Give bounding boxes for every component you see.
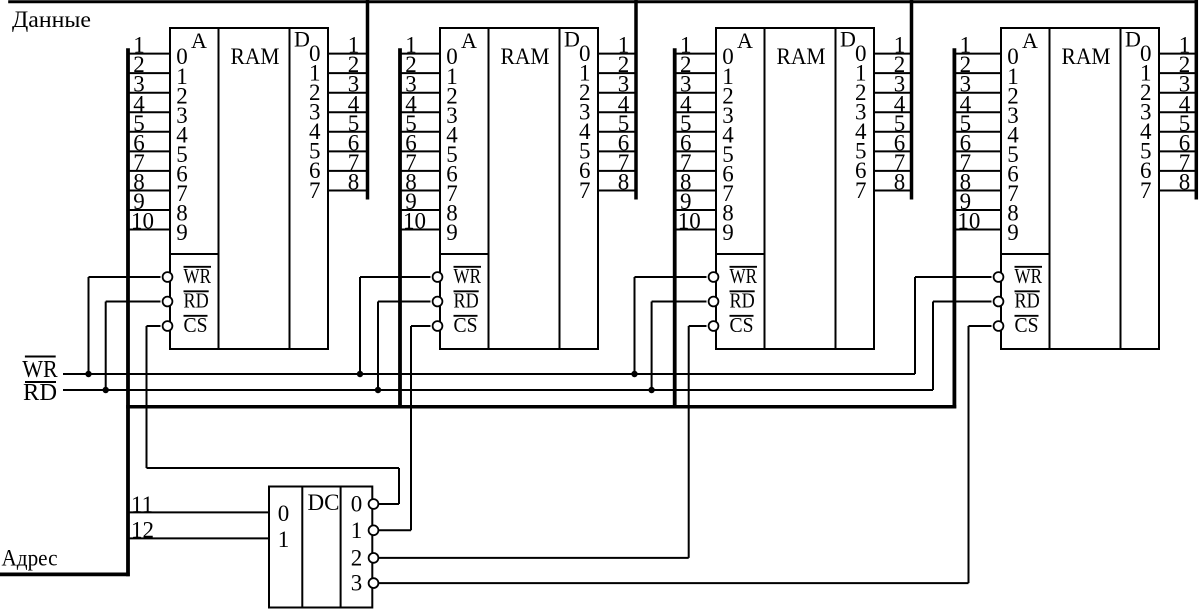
svg-text:10: 10 bbox=[957, 209, 980, 234]
data line numbers 1-8 of RAM D4 bbox=[1179, 33, 1191, 195]
data riser bus from RAM D1 to data bus bbox=[366, 0, 370, 200]
decoder DC body bbox=[269, 487, 372, 608]
decoder output 3 inversion circle bbox=[369, 578, 379, 588]
svg-text:Данные: Данные bbox=[12, 7, 91, 33]
svg-text:7: 7 bbox=[855, 178, 867, 203]
svg-text:1: 1 bbox=[351, 518, 363, 543]
svg-text:Адрес: Адрес bbox=[2, 546, 58, 572]
svg-text:12: 12 bbox=[131, 518, 154, 543]
svg-text:2: 2 bbox=[351, 546, 363, 571]
pin CS of RAM D4 (inversion circle + label) bbox=[994, 313, 1039, 337]
svg-text:3: 3 bbox=[351, 571, 363, 596]
svg-text:A: A bbox=[191, 28, 207, 53]
svg-text:11: 11 bbox=[131, 492, 153, 517]
decoder output 0 inversion circle bbox=[369, 499, 379, 509]
svg-text:7: 7 bbox=[579, 178, 591, 203]
pin WR of RAM D1 (inversion circle + label) bbox=[163, 264, 211, 288]
svg-text:D: D bbox=[840, 27, 856, 52]
wire decoder output 0 to CS of RAM D1 bbox=[147, 468, 400, 504]
address lines 1-10 into RAM D3 bbox=[675, 54, 716, 230]
RAM chip D4 body bbox=[1001, 28, 1159, 349]
svg-text:RD: RD bbox=[23, 380, 57, 406]
svg-text:A: A bbox=[1022, 28, 1038, 53]
wire WR branch to RAM D1 bbox=[89, 277, 161, 374]
svg-text:DC: DC bbox=[308, 490, 340, 515]
svg-text:9: 9 bbox=[446, 220, 458, 245]
junction RD branch D3 bbox=[648, 387, 654, 393]
data riser bus from RAM D4 to data bus bbox=[1195, 0, 1199, 200]
wire address line 11 to decoder input 0 bbox=[128, 511, 269, 513]
data pin numbers 0-7 RAM D1 bbox=[309, 41, 321, 203]
RAM chip D2 body bbox=[440, 28, 598, 349]
RAM chip D1 body bbox=[170, 28, 328, 349]
junction WR branch D1 bbox=[85, 371, 91, 377]
pin CS of RAM D2 (inversion circle + label) bbox=[433, 313, 478, 337]
svg-text:RAM: RAM bbox=[501, 44, 550, 70]
address bus Адрес (bottom-left horizontal) bbox=[0, 573, 130, 577]
svg-text:10: 10 bbox=[403, 209, 426, 234]
address pin numbers 0-9 RAM D3 bbox=[722, 44, 734, 245]
svg-text:10: 10 bbox=[678, 209, 701, 234]
data lines 1-8 out of RAM D3 bbox=[874, 54, 912, 191]
address riser bus for RAM D3 bbox=[673, 48, 677, 408]
address riser bus for RAM D2 bbox=[398, 48, 402, 408]
address bus vertical riser (chip D1) bbox=[126, 48, 130, 576]
svg-text:7: 7 bbox=[1140, 178, 1152, 203]
svg-text:RAM: RAM bbox=[231, 44, 280, 70]
svg-text:9: 9 bbox=[176, 220, 188, 245]
data lines 1-8 out of RAM D1 bbox=[328, 54, 368, 191]
svg-text:0: 0 bbox=[278, 501, 290, 526]
pin RD of RAM D2 (inversion circle + label) bbox=[433, 289, 479, 313]
wire address line 12 to decoder input 1 bbox=[128, 537, 269, 539]
svg-text:8: 8 bbox=[1179, 169, 1191, 194]
wire WR branch to RAM D4 bbox=[915, 277, 992, 374]
data line numbers 1-8 of RAM D3 bbox=[894, 33, 906, 195]
data pin numbers 0-7 RAM D4 bbox=[1140, 41, 1152, 203]
wire CS of RAM D1 to decoder output 0 bbox=[147, 326, 161, 468]
address line numbers 1-10 of RAM D2 bbox=[403, 33, 426, 234]
address riser bus for RAM D4 bbox=[953, 48, 957, 408]
decoder input pin numbers 0-1 bbox=[278, 501, 290, 552]
svg-text:1: 1 bbox=[278, 527, 290, 552]
wire CS of RAM D3 to decoder output 2 bbox=[689, 326, 707, 558]
decoder output 2 inversion circle bbox=[369, 553, 379, 563]
wire RD branch to RAM D3 bbox=[652, 302, 707, 391]
pin WR of RAM D2 (inversion circle + label) bbox=[433, 264, 481, 288]
svg-text:D: D bbox=[564, 27, 580, 52]
pin WR of RAM D4 (inversion circle + label) bbox=[994, 264, 1042, 288]
pin WR of RAM D3 (inversion circle + label) bbox=[709, 264, 757, 288]
data bus Данные (top horizontal) bbox=[8, 0, 1197, 3]
wire RD branch to RAM D4 bbox=[933, 302, 992, 391]
wire CS of RAM D4 to decoder output 3 bbox=[969, 326, 992, 583]
address line numbers 1-10 of RAM D3 bbox=[678, 33, 701, 234]
data riser bus from RAM D3 to data bus bbox=[910, 0, 914, 200]
data line numbers 1-8 of RAM D2 bbox=[618, 33, 630, 195]
data lines 1-8 out of RAM D4 bbox=[1159, 54, 1196, 191]
signal RD label bbox=[23, 380, 57, 406]
address pin numbers 0-9 RAM D1 bbox=[176, 44, 188, 245]
address bus horizontal branch to chips D2-D4 bbox=[126, 405, 956, 409]
svg-text:9: 9 bbox=[722, 220, 734, 245]
svg-text:8: 8 bbox=[618, 169, 630, 194]
decoder output pin numbers 0-3 bbox=[351, 492, 363, 596]
address line numbers 1-10 of RAM D4 bbox=[957, 33, 980, 234]
pin RD of RAM D3 (inversion circle + label) bbox=[709, 289, 755, 313]
pin CS of RAM D3 (inversion circle + label) bbox=[709, 313, 754, 337]
wire CS of RAM D2 to decoder output 1 bbox=[411, 326, 431, 530]
wire WR branch to RAM D2 bbox=[360, 277, 431, 374]
wire RD bus (horizontal) bbox=[63, 389, 933, 391]
svg-text:A: A bbox=[461, 28, 477, 53]
address lines 1-10 into RAM D1 bbox=[128, 54, 170, 230]
svg-text:8: 8 bbox=[348, 169, 360, 194]
address pin numbers 0-9 RAM D2 bbox=[446, 44, 458, 245]
data riser bus from RAM D2 to data bus bbox=[634, 0, 638, 200]
wire decoder output 1 to CS of RAM D2 bbox=[378, 529, 411, 531]
address pin numbers 0-9 RAM D4 bbox=[1007, 44, 1019, 245]
wire RD branch to RAM D1 bbox=[106, 302, 161, 391]
svg-text:9: 9 bbox=[1007, 220, 1019, 245]
svg-text:RAM: RAM bbox=[1062, 44, 1111, 70]
junction WR branch D3 bbox=[631, 371, 637, 377]
pin RD of RAM D4 (inversion circle + label) bbox=[994, 289, 1040, 313]
pin CS of RAM D1 (inversion circle + label) bbox=[163, 313, 208, 337]
junction RD branch D2 bbox=[375, 387, 381, 393]
svg-text:0: 0 bbox=[351, 492, 363, 517]
svg-text:A: A bbox=[737, 28, 753, 53]
svg-text:8: 8 bbox=[894, 169, 906, 194]
junction WR branch D2 bbox=[357, 371, 363, 377]
RAM chip D3 body bbox=[716, 28, 874, 349]
data pin numbers 0-7 RAM D2 bbox=[579, 41, 591, 203]
data lines 1-8 out of RAM D2 bbox=[598, 54, 636, 191]
wire RD branch to RAM D2 bbox=[378, 302, 431, 391]
wire decoder output 2 to CS of RAM D3 bbox=[378, 557, 688, 559]
data pin numbers 0-7 RAM D3 bbox=[855, 41, 867, 203]
address lines 1-10 into RAM D2 bbox=[400, 54, 440, 230]
svg-text:D: D bbox=[1125, 27, 1141, 52]
svg-text:D: D bbox=[294, 27, 310, 52]
svg-text:7: 7 bbox=[309, 178, 321, 203]
wire WR bus (horizontal) bbox=[63, 373, 915, 375]
pin RD of RAM D1 (inversion circle + label) bbox=[163, 289, 209, 313]
address lines 1-10 into RAM D4 bbox=[954, 54, 1001, 230]
wire decoder output 3 to CS of RAM D4 bbox=[378, 582, 968, 584]
svg-text:RAM: RAM bbox=[777, 44, 826, 70]
signal WR label bbox=[22, 357, 57, 384]
wire WR branch to RAM D3 bbox=[635, 277, 707, 374]
svg-text:10: 10 bbox=[131, 209, 154, 234]
decoder output 1 inversion circle bbox=[369, 525, 379, 535]
address line numbers 1-10 of RAM D1 bbox=[131, 33, 154, 234]
junction RD branch D1 bbox=[103, 387, 109, 393]
data line numbers 1-8 of RAM D1 bbox=[348, 33, 360, 195]
